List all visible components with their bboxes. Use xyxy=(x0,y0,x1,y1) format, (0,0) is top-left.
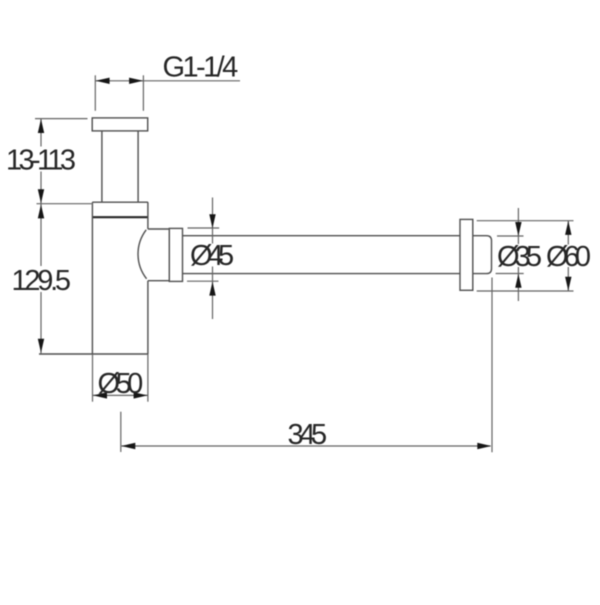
arrow 345 right xyxy=(477,443,491,449)
svg-text:G1-1/4: G1-1/4 xyxy=(163,52,239,84)
d50 ext left xyxy=(92,354,94,402)
129.5 dim line xyxy=(40,204,42,353)
13-113 dim line xyxy=(40,119,42,204)
d45 ext bottom xyxy=(187,280,219,282)
G1-1/4 dim leader xyxy=(95,80,240,82)
arrow d50 right xyxy=(134,392,148,398)
svg-text:129.5: 129.5 xyxy=(12,265,72,297)
arrow G1-1/4 right xyxy=(129,78,143,84)
tube xyxy=(183,236,492,274)
arrow G1-1/4 left xyxy=(96,78,110,84)
outlet stub top xyxy=(148,228,169,230)
arrow d50 left xyxy=(93,392,107,398)
arrow 129.5 top xyxy=(38,204,44,218)
svg-text:Ø45: Ø45 xyxy=(190,240,234,272)
13-113 ext top xyxy=(35,118,88,120)
svg-text:Ø50: Ø50 xyxy=(98,368,144,400)
body right wall upper xyxy=(147,202,149,229)
d45 ext top xyxy=(188,227,220,229)
d60 ext top xyxy=(477,220,574,222)
arrow d35 bottom xyxy=(515,274,521,288)
arrow d35 top xyxy=(515,222,521,236)
d50 dim line xyxy=(93,394,148,396)
inlet pipe wall left xyxy=(101,131,103,202)
arrow 345 left xyxy=(121,443,135,449)
inlet pipe wall right xyxy=(137,131,139,202)
d60 dim line xyxy=(567,221,569,291)
arrow 13-113 top xyxy=(38,119,44,133)
wall flange xyxy=(460,219,473,290)
d45 dim line xyxy=(212,198,214,320)
13-113 ext bottom xyxy=(37,203,92,205)
d60 ext bottom xyxy=(477,290,574,292)
svg-text:13-113: 13-113 xyxy=(6,144,76,176)
d35 dim line xyxy=(517,208,519,301)
body right wall lower xyxy=(147,281,149,354)
body top nut xyxy=(92,201,148,203)
outlet saddle arc xyxy=(138,230,147,279)
outlet stub bottom xyxy=(148,280,169,282)
d35 ext bottom xyxy=(496,273,524,275)
arrow 129.5 bottom xyxy=(38,339,44,353)
svg-text:Ø60: Ø60 xyxy=(546,241,591,273)
arrow d45 top xyxy=(209,214,215,228)
body joint dark line xyxy=(93,216,148,218)
body bottom xyxy=(39,353,148,355)
G1-1/4 ext line left xyxy=(94,75,96,111)
svg-text:345: 345 xyxy=(288,419,328,451)
345 dim line xyxy=(122,445,491,447)
345 ext right xyxy=(491,278,493,453)
outlet nut xyxy=(169,228,182,281)
body left wall xyxy=(91,202,93,354)
arrow d45 bottom xyxy=(209,282,215,296)
345 ext left xyxy=(120,412,122,452)
arrow 13-113 bottom xyxy=(38,189,44,203)
arrow d60 top xyxy=(565,221,571,235)
G1-1/4 ext line right xyxy=(142,75,144,111)
arrow d60 bottom xyxy=(565,277,571,291)
d50 ext right xyxy=(147,354,149,402)
svg-text:Ø35: Ø35 xyxy=(497,241,542,273)
top flange xyxy=(92,118,148,131)
d35 ext top xyxy=(497,235,524,237)
